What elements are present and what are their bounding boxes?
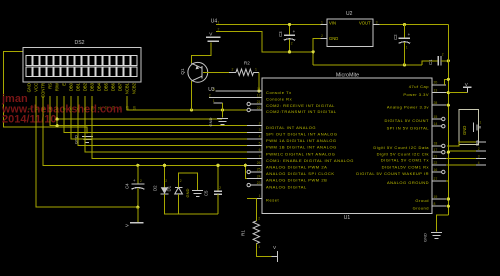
svg-text:1: 1 — [213, 99, 215, 103]
svg-text:VIN: VIN — [329, 21, 336, 26]
wire: reset pin to R1 — [247, 198, 256, 221]
wire: U2 GND pin to ground rail — [313, 38, 320, 65]
svg-text:+: + — [293, 29, 296, 34]
U5 pin 3 stub — [476, 158, 486, 160]
svg-text:GND: GND — [185, 189, 190, 198]
svg-text:2014/11/10: 2014/11/10 — [2, 114, 56, 126]
wire: pin 20 jog to 3.3V vertical — [445, 79, 449, 85]
svg-text:GND: GND — [208, 118, 213, 127]
svg-text:21: 21 — [257, 100, 261, 104]
wire: pin 27 analog ground to vertical — [446, 180, 448, 182]
svg-text:Ground: Ground — [413, 205, 429, 210]
U1 pin 20 (47uf Cap) — [409, 81, 446, 89]
svg-text:GND: GND — [27, 83, 32, 92]
svg-text:2: 2 — [259, 122, 261, 126]
wire: DS2 E lane to U1 pin 3 — [64, 96, 247, 132]
svg-text:7: 7 — [259, 155, 261, 159]
DS2 pin numbers — [28, 106, 137, 110]
wire: U4 pin2 to C3 bottom rail — [216, 31, 313, 51]
svg-text:Console Rx: Console Rx — [266, 97, 292, 102]
resistor R2 — [229, 61, 259, 76]
svg-text:2: 2 — [165, 179, 167, 183]
svg-text:D2: D2 — [153, 185, 158, 191]
svg-text:13: 13 — [434, 89, 438, 93]
U2 pin 1 stub — [320, 24, 326, 26]
U3 pin 3 line to U1 pin 11 — [215, 90, 247, 92]
svg-text:22: 22 — [434, 161, 438, 165]
wire: Q1 base to R2 — [203, 71, 229, 73]
wire: DS2 R/W drop — [56, 96, 58, 126]
wire: VOUT to main 3.3V vertical — [380, 24, 449, 26]
battery plate long — [206, 36, 221, 38]
svg-text:15: 15 — [434, 115, 438, 119]
svg-text:2: 2 — [140, 179, 142, 183]
svg-text:12: 12 — [257, 93, 261, 97]
wire: DS2 CONTR lane to U1 pin 26 — [43, 96, 247, 165]
junction R2 to console tx stub — [257, 89, 260, 92]
junction ground rail at C3 rail — [312, 50, 315, 53]
ground at D1 (GND symbol) — [192, 190, 203, 192]
svg-text:ANALOG DIGITAL SPI CLOCK: ANALOG DIGITAL SPI CLOCK — [266, 171, 335, 176]
svg-text:Q1: Q1 — [180, 68, 185, 75]
ground near DS2 (GND symbol) — [82, 135, 93, 137]
svg-text:COM2: RECEIVE INT DIGITAL: COM2: RECEIVE INT DIGITAL — [266, 103, 335, 108]
svg-text:NCB1: NCB1 — [125, 82, 130, 94]
diode D2 — [153, 179, 169, 194]
connector U5 box — [459, 110, 479, 145]
svg-text:DIGITAL INT ANALOG: DIGITAL INT ANALOG — [266, 125, 316, 130]
U5 pin 4 stub — [476, 164, 486, 166]
svg-text:GND: GND — [422, 233, 427, 242]
wire: U1 pin 22 to U5 pin 4 — [446, 164, 476, 166]
U1 pin 23 (ANALOG DIGITAL) — [247, 181, 307, 189]
svg-text:R2: R2 — [244, 61, 250, 66]
U1 pin 18 (Digitl 5V Count I2C Data) — [373, 142, 445, 150]
junction U3 pin1 / GND tap — [221, 108, 224, 111]
svg-text:Power 3.3V: Power 3.3V — [403, 92, 429, 97]
svg-text:VOUT: VOUT — [359, 21, 371, 26]
U1 pin 14 (SPI IN 5V DIGITAL) — [387, 122, 445, 130]
capacitor C5 — [204, 186, 222, 196]
svg-text:2: 2 — [219, 186, 221, 190]
junction C3 bottom — [288, 50, 291, 53]
svg-text:16: 16 — [133, 106, 137, 110]
svg-text:GND: GND — [462, 126, 467, 135]
wire: C1 to 3.3V vertical — [441, 60, 448, 62]
svg-text:C4: C4 — [125, 183, 130, 189]
junction C2 bottom — [403, 63, 406, 66]
svg-text:ANALOG DIGITAL: ANALOG DIGITAL — [266, 184, 307, 189]
junction C2 top — [403, 23, 406, 26]
U5 pin 2 stub — [476, 150, 486, 152]
svg-text:RS: RS — [48, 83, 53, 89]
U1 pin 24 (ANALOG DIGITAL PWM 2B) — [247, 174, 327, 182]
svg-text:19: 19 — [434, 195, 438, 199]
wire: R/W ground spur — [57, 118, 222, 120]
svg-text:14: 14 — [434, 122, 438, 126]
svg-text:4: 4 — [259, 135, 261, 139]
svg-text:R/W: R/W — [55, 83, 60, 91]
junction C4 top on pin26 lane — [136, 164, 139, 167]
svg-text:C5: C5 — [204, 190, 209, 196]
microcontroller U1 box — [262, 78, 432, 214]
svg-text:Digitl 5V Count I2C Clk: Digitl 5V Count I2C Clk — [377, 151, 429, 156]
svg-text:2: 2 — [291, 42, 293, 46]
U2 pin 2 stub (GND) — [320, 37, 326, 39]
resistor R1 — [241, 217, 261, 250]
U1 pin 22 (COM2:TRANSMIT INT DIGITAL) — [247, 106, 337, 114]
svg-text:C2: C2 — [393, 34, 398, 40]
svg-text:16: 16 — [434, 168, 438, 172]
svg-text:C3: C3 — [278, 31, 283, 37]
svg-text:COM2:TRANSMIT INT DIGITAL: COM2:TRANSMIT INT DIGITAL — [266, 109, 337, 114]
wire: Q1 collector to backlight lane — [191, 81, 193, 110]
svg-text:22: 22 — [257, 106, 261, 110]
junction C4 bottom / VCC rail — [136, 206, 139, 209]
svg-text:DB0: DB0 — [69, 82, 74, 91]
U1 pin 2 (DIGITAL INT ANALOG) — [247, 122, 316, 130]
svg-text:1: 1 — [321, 20, 323, 24]
svg-text:DB3: DB3 — [90, 82, 95, 91]
wire: C5 top from CONTR lane — [217, 165, 219, 191]
regulator U2 box — [327, 19, 373, 46]
svg-text:1: 1 — [259, 194, 261, 198]
svg-text:18: 18 — [434, 142, 438, 146]
wire: jog from pin26 lane to U1 pin 24 — [245, 165, 247, 178]
svg-text:DIGITAL 5V COUNT WAKEUP IR: DIGITAL 5V COUNT WAKEUP IR — [356, 171, 429, 176]
capacitor C3 — [278, 25, 296, 52]
U1 pin 25 (ANALOG DIGITAL SPI CLOCK) — [247, 168, 335, 176]
wire: U1 pin 18 to U5 pin 1 — [447, 142, 476, 146]
wire: ground rail tee to C1 — [422, 61, 438, 65]
svg-text:2: 2 — [180, 179, 182, 183]
svg-text:DB1: DB1 — [76, 82, 81, 91]
svg-text:DB2: DB2 — [83, 82, 88, 91]
svg-text:8: 8 — [434, 202, 436, 206]
svg-text:2: 2 — [321, 34, 323, 38]
svg-text:23: 23 — [257, 181, 261, 185]
diode D1 — [167, 179, 183, 194]
wire: C4 bottom to +V below — [137, 207, 139, 223]
svg-text:ANALOG DIGITAL PWM 2B: ANALOG DIGITAL PWM 2B — [266, 178, 327, 183]
svg-text:3: 3 — [259, 128, 261, 132]
power +V symbol below C4 — [125, 223, 144, 227]
wire: D2 cathode down — [165, 194, 219, 214]
U5 internal ground symbol — [474, 120, 482, 132]
svg-text:DIGITAL5V COM1 Rx: DIGITAL5V COM1 Rx — [382, 164, 429, 169]
U5 pin 1 stub — [476, 141, 486, 143]
svg-text:1: 1 — [218, 20, 220, 24]
wire: DS2 DB0 lane to U1 pin 4 — [71, 96, 247, 139]
svg-text:Console Tx: Console Tx — [266, 90, 292, 95]
svg-text:2: 2 — [478, 147, 480, 151]
svg-text:2: 2 — [232, 67, 234, 71]
svg-text:2: 2 — [209, 93, 211, 97]
wire: DS2 VCC to C4 bottom rail — [36, 96, 138, 207]
capacitor C1 — [428, 53, 444, 66]
svg-text:U2: U2 — [346, 11, 353, 17]
junction C1 on vertical — [447, 59, 450, 62]
U1 pin 13 (Power 3.3V) — [403, 89, 446, 97]
U1 pin 21 (DIGITAL 5V COM1 Tx) — [381, 154, 446, 162]
wire: U1 pin 21 to U5 pin 3 — [446, 158, 476, 160]
junction C3 top — [288, 23, 291, 26]
svg-text:U5: U5 — [475, 140, 480, 146]
svg-text:ANALOG DIGITAL PWM 2A: ANALOG DIGITAL PWM 2A — [266, 165, 327, 170]
capacitor C2 — [393, 25, 411, 65]
capacitor C4 — [125, 165, 145, 207]
wire: U4 pin1 to C3 top and U2 VIN — [216, 24, 320, 26]
U1 pin 26 (ANALOG DIGITAL PWM 2A) — [247, 161, 327, 169]
U1 pin 16 (DIGITAL 5V COUNT WAKEUP IR) — [356, 168, 445, 176]
svg-text:20: 20 — [434, 81, 438, 85]
svg-text:1: 1 — [406, 46, 408, 50]
svg-text:NCB2: NCB2 — [132, 82, 137, 94]
svg-text:28: 28 — [434, 101, 438, 105]
U1 pin 17 (Digitl 5V Count I2C Clk) — [377, 148, 445, 156]
svg-text:DB6: DB6 — [111, 82, 116, 91]
svg-text:DIGITAL 5V COM1 Tx: DIGITAL 5V COM1 Tx — [381, 158, 429, 163]
power +V symbol at R1 — [272, 245, 278, 262]
U1 pin 5 (PWM 1B DIGITAL INT ANALOG) — [247, 141, 337, 149]
svg-text:25: 25 — [257, 168, 261, 172]
svg-text:PWM1C DIGITAL INT ANALOG: PWM1C DIGITAL INT ANALOG — [266, 151, 335, 156]
U1 pin 19 (Groud) — [415, 195, 446, 203]
svg-text:SPI OUT DIGITAL INT ANALOG: SPI OUT DIGITAL INT ANALOG — [266, 132, 338, 137]
U1 pin 4 (PWM 1A DIGITAL INT ANALOG) — [247, 135, 337, 143]
U1 pin 28 (Analog Power 3.3v) — [387, 101, 446, 109]
svg-text:4: 4 — [478, 161, 480, 165]
junction Q1 collector on backlight lane — [190, 108, 193, 111]
svg-text:2: 2 — [258, 217, 260, 221]
svg-text:PWM 1B DIGITAL INT ANALOG: PWM 1B DIGITAL INT ANALOG — [266, 145, 337, 150]
svg-text:COM1: ENABLE DIGITAL INT AN: COM1: ENABLE DIGITAL INT ANALOG — [266, 158, 354, 163]
svg-text:U4: U4 — [211, 18, 218, 24]
junction R/W on pin 2 lane — [56, 124, 59, 127]
U1 pin 21 (COM2: RECEIVE INT DIGITAL) — [247, 100, 335, 108]
svg-text:27: 27 — [434, 177, 438, 181]
U1 pin 15 (DIGITAL 5V COUNT) — [385, 115, 445, 123]
svg-text:26: 26 — [257, 161, 261, 165]
wire: DS2 DB2 lane to U1 pin 6 — [85, 96, 247, 152]
wire: pin 28 to vertical — [446, 104, 448, 106]
svg-text:47uf Cap: 47uf Cap — [409, 84, 430, 89]
U3 pin 1 line to ground tap — [213, 102, 222, 104]
wire: DS2 RS lane to U1 pin 2 — [50, 96, 247, 126]
wire: ground drop bottom right — [437, 215, 449, 232]
wire: Q1 emitter to battery rail — [191, 42, 211, 63]
svg-text:6: 6 — [259, 148, 261, 152]
svg-text:2: 2 — [442, 53, 444, 57]
svg-text:DS2: DS2 — [74, 40, 84, 46]
svg-text:Reset: Reset — [266, 198, 280, 203]
U1 pin 3 (SPI OUT DIGITAL INT ANALOG) — [247, 128, 338, 136]
svg-text:CONTR: CONTR — [41, 83, 46, 98]
svg-text:11: 11 — [257, 87, 261, 91]
wire: D1 anode down to clamp rail — [178, 194, 180, 214]
svg-text:U1: U1 — [344, 215, 351, 221]
svg-text:GND: GND — [329, 36, 338, 41]
svg-text:3: 3 — [213, 88, 215, 92]
ground below backlight lane (GND symbol) — [222, 110, 224, 118]
transistor Q1 — [180, 62, 208, 82]
svg-text:5: 5 — [259, 141, 261, 145]
svg-text:E: E — [62, 83, 67, 86]
wire: U3 pin1 drop — [222, 103, 224, 110]
U1 pin 6 (PWM1C DIGITAL INT ANALOG) — [247, 148, 335, 156]
wire: R1 bottom to +V — [256, 244, 271, 257]
svg-text:DB7: DB7 — [118, 82, 123, 91]
DS2 pin names — [27, 82, 137, 98]
svg-text:3: 3 — [376, 20, 378, 24]
svg-text:PWM 1A DIGITAL INT ANALOG: PWM 1A DIGITAL INT ANALOG — [266, 138, 337, 143]
svg-text:Digitl 5V Count I2C Data: Digitl 5V Count I2C Data — [373, 145, 429, 150]
power +V symbol top right — [448, 82, 471, 93]
svg-text:Groud: Groud — [415, 198, 429, 203]
svg-text:1: 1 — [258, 245, 260, 249]
junction R/W ground spur — [56, 118, 59, 121]
wire: R2 to U1 pin 11 — [258, 72, 260, 91]
U1 pin 7 (COM1: ENABLE DIGITAL INT ANALOG) — [247, 155, 354, 163]
wire: DS2 DB1 lane to U1 pin 5 — [78, 96, 247, 146]
svg-text:R1: R1 — [241, 230, 246, 236]
svg-text:+: + — [408, 32, 411, 37]
wire: DS2 NCB1 lane to U1 pin 22 — [127, 96, 247, 110]
svg-text:D1: D1 — [167, 185, 172, 191]
svg-text:21: 21 — [434, 154, 438, 158]
wire: pin 19 ground to vertical — [446, 198, 448, 200]
connector DS2 box — [23, 48, 141, 82]
wire: C5 bottom to clamp rail — [217, 194, 219, 214]
wire: bottom ground rail under U2 — [313, 64, 422, 66]
wire: D1 cathode to ground — [179, 173, 198, 190]
svg-text:24: 24 — [257, 174, 261, 178]
DS2 contact squares row 2 — [26, 67, 137, 77]
wire: pin 8 ground to vertical — [446, 205, 448, 207]
U1 pin 1 (Reset) — [247, 194, 280, 202]
svg-text:ANALOG GROUND: ANALOG GROUND — [387, 180, 429, 185]
junction jog on pin26 lane — [244, 164, 247, 167]
svg-text:17: 17 — [434, 148, 438, 152]
svg-text:DB5: DB5 — [104, 82, 109, 91]
U1 pin 22 (DIGITAL5V COM1 Rx) — [382, 161, 446, 169]
wire: DS2 GND pin left frame route — [4, 52, 87, 134]
wire: main 3.3V / ground vertical at right — [447, 25, 449, 215]
svg-text:DB4: DB4 — [97, 82, 102, 91]
svg-text:DIGITAL 5V COUNT: DIGITAL 5V COUNT — [385, 118, 430, 123]
svg-text:C1: C1 — [428, 59, 433, 65]
U1 pin 27 (ANALOG GROUND) — [387, 177, 446, 185]
svg-text:1: 1 — [255, 67, 257, 71]
wire: pin 13 to 3.3V vertical — [446, 92, 448, 94]
DS2 contact squares row 1 — [26, 56, 137, 66]
U2 pin 3 stub — [373, 24, 379, 26]
svg-text:SPI IN 5V DIGITAL: SPI IN 5V DIGITAL — [387, 125, 430, 130]
U1 pin 11 (Console Tx) — [247, 87, 292, 95]
battery plate short — [208, 40, 220, 42]
U1 pin 12 (Console Rx) — [247, 93, 292, 101]
svg-text:3: 3 — [478, 155, 480, 159]
wire: U1 pin 17 to U5 pin 2 — [447, 151, 476, 152]
ground bottom right (GND symbol) — [431, 231, 442, 233]
U1 pin 8 (Ground) — [413, 202, 446, 210]
wire: D2 anode from CONTR lane — [164, 165, 166, 187]
svg-text:VCC: VCC — [34, 83, 39, 92]
U3 pin 2 line to U1 pin 12 — [209, 97, 247, 99]
svg-text:1: 1 — [480, 120, 482, 124]
svg-text:Analog Power 3.3v: Analog Power 3.3v — [387, 104, 429, 109]
wire: DS2 DB3 lane to U1 pin 7 — [92, 96, 247, 159]
